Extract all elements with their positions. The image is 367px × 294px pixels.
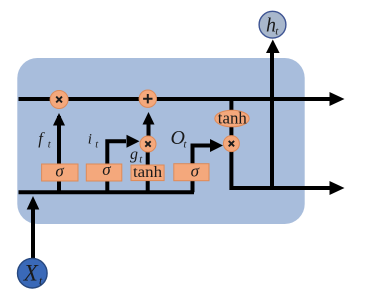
svg-text:σ: σ bbox=[102, 160, 111, 179]
svg-text:i: i bbox=[88, 131, 92, 147]
svg-text:tanh: tanh bbox=[133, 164, 162, 181]
svg-text:g: g bbox=[130, 146, 138, 163]
svg-text:σ: σ bbox=[55, 161, 64, 180]
svg-text:tanh: tanh bbox=[218, 109, 247, 128]
svg-text:σ: σ bbox=[191, 161, 200, 180]
svg-text:X: X bbox=[23, 261, 39, 286]
